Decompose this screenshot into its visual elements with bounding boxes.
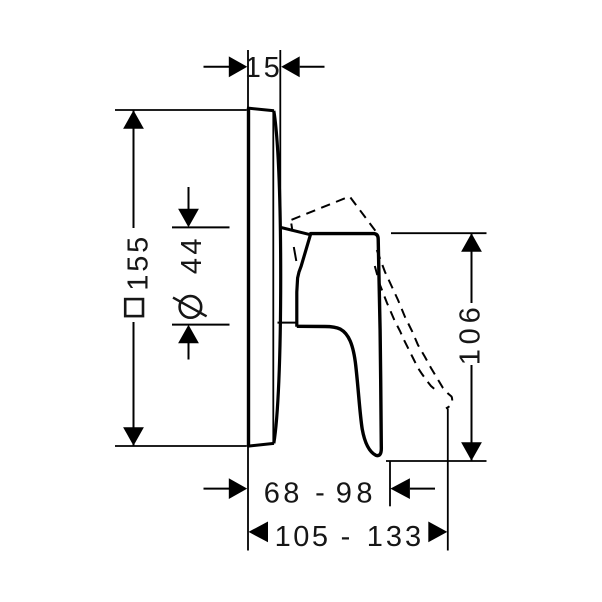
- dim 155 arrows: [123, 110, 144, 129]
- dashed base tick 1: [291, 224, 292, 232]
- dim 155 ext line top: [115, 109, 247, 111]
- dim 44 bottom arrow: [172, 324, 230, 326]
- plate bottom edge: [247, 443, 274, 446]
- svg-text:-: -: [315, 477, 325, 509]
- dim 15 ext line right: [279, 50, 281, 238]
- diameter symbol: [180, 296, 202, 318]
- dashed lever upper edge: [292, 196, 378, 233]
- dim 68-98 ext line right: [389, 461, 391, 506]
- dim 106 line: [471, 233, 473, 303]
- svg-text:-: -: [341, 521, 351, 553]
- dim 155 line: [133, 111, 135, 229]
- square symbol: [125, 299, 143, 316]
- dim 105-133 right ext line: [447, 409, 449, 551]
- dim 15 right arrow: [300, 66, 325, 68]
- plate crease line: [272, 112, 274, 443]
- handle collar: [297, 234, 311, 327]
- plate top edge: [247, 108, 274, 111]
- dim 155 ext line bottom: [115, 445, 247, 447]
- dim 44 top arrow: [188, 187, 190, 211]
- svg-text:44: 44: [176, 235, 208, 274]
- dim 68-98 line: [204, 488, 230, 490]
- svg-text:105: 105: [275, 521, 331, 553]
- svg-text:155: 155: [122, 234, 154, 291]
- svg-text:133: 133: [367, 521, 424, 553]
- dim 15 ext line left: [247, 50, 249, 108]
- dashed base tick 2: [294, 247, 297, 261]
- dim 106 arrows: [461, 233, 482, 252]
- dim 106 ext line bottom: [386, 460, 487, 462]
- dashed lever outer curve: [377, 250, 452, 409]
- svg-text:1: 1: [245, 52, 261, 84]
- dashed lever inner curve: [375, 266, 435, 390]
- svg-text:106: 106: [454, 303, 486, 366]
- svg-text:68: 68: [264, 477, 303, 509]
- svg-text:5: 5: [264, 52, 280, 84]
- dim 15 left arrow: [204, 66, 230, 68]
- dim 106 ext line top: [391, 232, 487, 234]
- body top line: [281, 228, 310, 235]
- dim 105-133 left ext line: [247, 448, 249, 551]
- dim 105-133 arrows: [249, 522, 269, 543]
- handle body and blade: [297, 234, 382, 456]
- svg-text:98: 98: [336, 477, 377, 509]
- plate left edge: [247, 108, 250, 447]
- plate dome arc: [274, 111, 281, 444]
- body lower line: [278, 322, 298, 324]
